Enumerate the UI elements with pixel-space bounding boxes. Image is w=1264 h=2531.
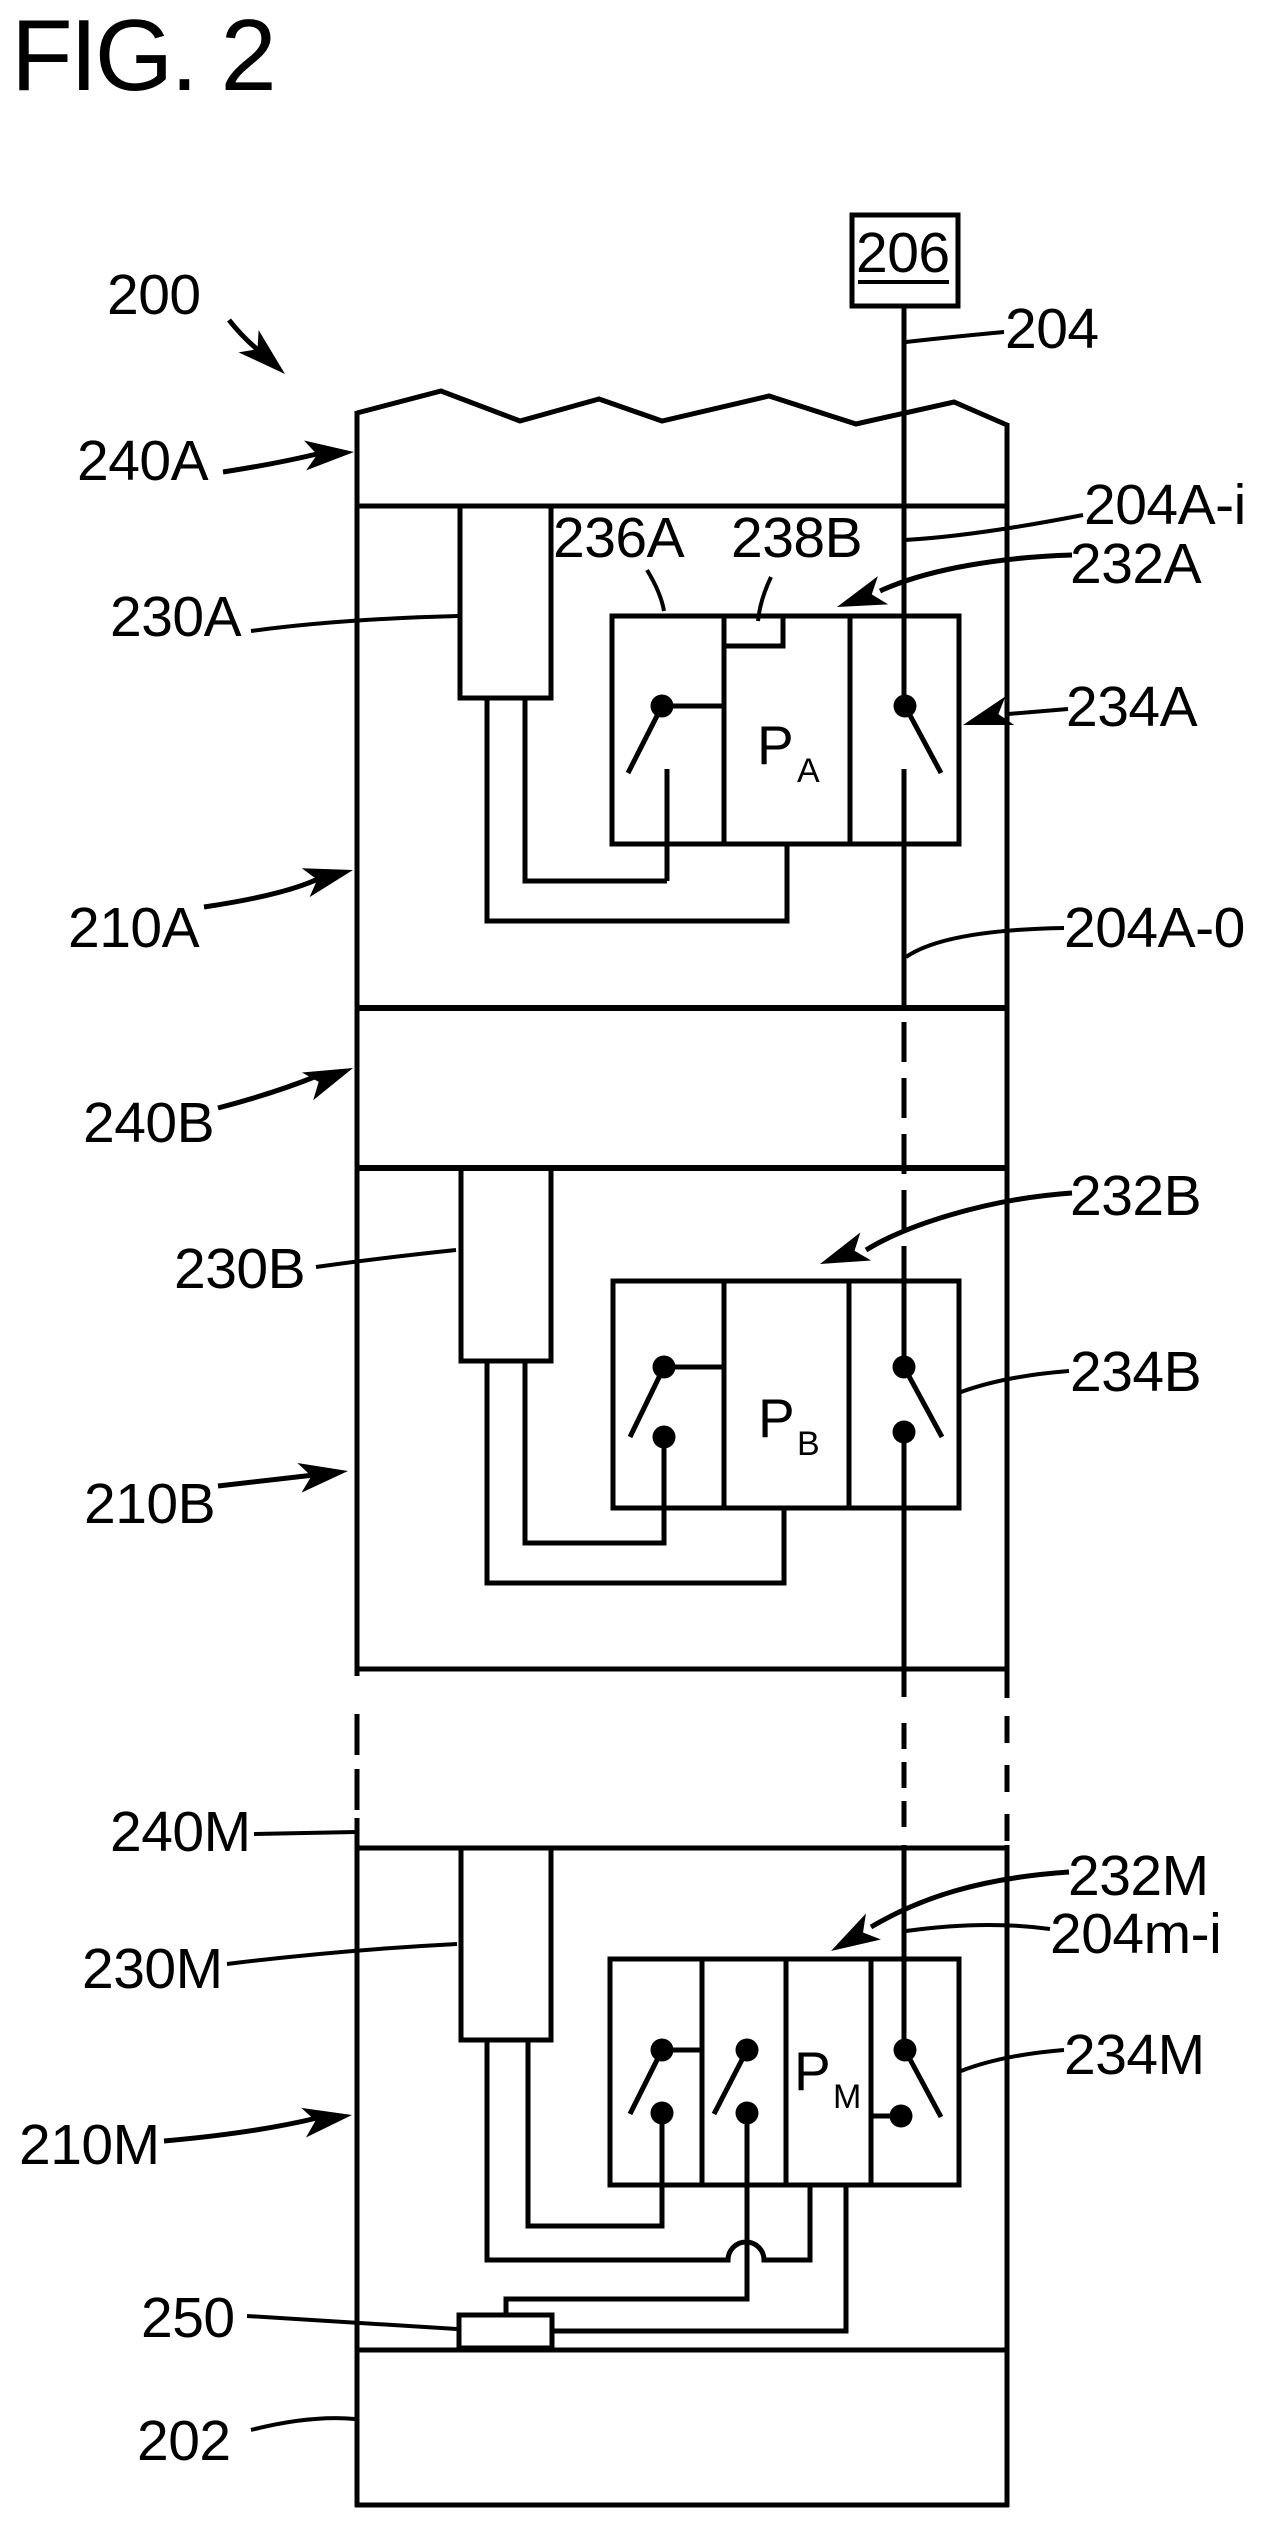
wire 204A-0 stub below switch <box>902 769 907 1010</box>
wire 204 dashed in break <box>902 1723 907 1830</box>
svg-text:P: P <box>758 1387 795 1449</box>
arrow for 210B <box>218 1475 314 1486</box>
layer boundary 210A bottom <box>355 1005 1009 1011</box>
switch M1 bottom dot <box>651 2102 674 2125</box>
svg-text:240B: 240B <box>83 1091 214 1155</box>
wire B1 pedestal to PB cell <box>487 1361 784 1583</box>
svg-text:204A-i: 204A-i <box>1084 473 1246 537</box>
switch 232B-left bottom dot <box>653 1426 676 1449</box>
leader+arrow for 232A <box>880 555 1072 591</box>
leader for 236A <box>647 570 664 611</box>
wire 204 below 232B <box>902 1443 907 1697</box>
layer boundary 240M top of section M <box>355 1846 1009 1851</box>
partition line 232A left <box>722 616 727 844</box>
svg-text:210A: 210A <box>68 896 200 960</box>
pedestal 230A <box>460 506 551 698</box>
switch M2 top dot <box>736 2039 759 2062</box>
switch M1 blade <box>630 2050 662 2114</box>
switch 232B-left contact line <box>664 1365 724 1370</box>
svg-text:M: M <box>833 2078 861 2116</box>
memory cell box 232B <box>613 1281 959 1508</box>
svg-text:B: B <box>797 1425 820 1463</box>
leader for 204A-0 <box>906 928 1064 957</box>
contact pad 250 <box>459 2315 552 2348</box>
svg-text:204: 204 <box>1005 297 1099 361</box>
svg-text:250: 250 <box>141 2286 235 2350</box>
switch 234M blade <box>905 2050 941 2117</box>
switch M2 bottom dot <box>736 2102 759 2125</box>
leader for 230A <box>251 616 458 631</box>
layer boundary 210B bottom <box>355 1667 1009 1672</box>
svg-text:230M: 230M <box>82 1937 223 2001</box>
wire M3 pedestal to PM cell with hop <box>487 2040 810 2260</box>
memory cell box 232M <box>610 1959 959 2185</box>
leader for 238B <box>758 577 771 621</box>
partition line 232M third <box>869 1959 874 2185</box>
svg-text:204A-0: 204A-0 <box>1064 896 1245 960</box>
leader for 250 <box>247 2316 457 2329</box>
leader+arrow for 232M <box>871 1872 1069 1927</box>
leader for 230B <box>316 1250 456 1267</box>
wire 204m vertical to cell M <box>902 1845 907 2039</box>
svg-text:240M: 240M <box>110 1800 251 1864</box>
leader for 204 <box>906 332 1004 342</box>
leader for 234M <box>961 2050 1064 2071</box>
notch 238B sub-box <box>724 616 783 646</box>
switch 234M bottom dot <box>890 2105 913 2128</box>
switch 232B-left blade <box>630 1367 664 1437</box>
wire B2 pedestal to switch 232B-left <box>525 1361 664 1543</box>
switch 236A stub wire <box>665 769 670 881</box>
svg-text:236A: 236A <box>553 506 685 570</box>
switch 236A blade <box>628 706 662 773</box>
arrow for 240A <box>223 454 317 472</box>
svg-text:210B: 210B <box>84 1472 215 1536</box>
layer boundary 240B bottom <box>355 1165 1009 1171</box>
partition line 232B right <box>847 1281 852 1508</box>
svg-text:240A: 240A <box>77 429 209 493</box>
switch M2 blade <box>714 2050 747 2114</box>
svg-text:210M: 210M <box>19 2113 160 2177</box>
svg-text:FIG. 2: FIG. 2 <box>11 0 274 112</box>
svg-text:P: P <box>794 2040 831 2102</box>
arrow for 210M <box>164 2118 317 2141</box>
wire M2 cell2 down to contact pad <box>506 2113 747 2315</box>
wire M1 cell1 to pedestal <box>528 2040 662 2226</box>
switch M1 top dot <box>651 2039 674 2062</box>
switch 234A dot <box>894 695 917 718</box>
memory cell box 232A <box>612 616 959 844</box>
svg-text:200: 200 <box>107 263 201 327</box>
pedestal 230B <box>461 1168 551 1361</box>
switch 234B top dot <box>893 1356 916 1379</box>
switch 234B blade <box>904 1367 942 1437</box>
partition line 232B left <box>722 1281 727 1508</box>
partition line 232M first <box>700 1959 705 2185</box>
right wall solid upper <box>1005 423 1010 1698</box>
switch M1 contact line <box>662 2048 702 2053</box>
partition line 232A right <box>848 616 853 844</box>
leader for 230M <box>227 1944 457 1964</box>
switch 234A blade <box>905 706 941 773</box>
leader+arrow for 234A <box>1008 709 1068 714</box>
svg-text:232B: 232B <box>1070 1164 1201 1228</box>
svg-text:202: 202 <box>137 2409 231 2473</box>
svg-text:234B: 234B <box>1070 1340 1201 1404</box>
wire 204 inside 232B to switch <box>902 1281 907 1356</box>
bottom edge of substrate 202 <box>355 2503 1009 2508</box>
switch 234M contact line <box>871 2114 895 2119</box>
svg-text:232M: 232M <box>1068 1844 1209 1908</box>
svg-text:P: P <box>757 714 794 776</box>
wire 204 dashed through 240B <box>902 1022 907 1281</box>
svg-text:230B: 230B <box>174 1237 305 1301</box>
right wall dashed (break) <box>1005 1716 1010 1845</box>
wire A2 pedestal to switch 236A <box>525 698 667 881</box>
zigzag top edge of structure <box>357 391 1007 425</box>
switch 234M top dot <box>894 2039 917 2062</box>
arrow for 240B <box>218 1076 317 1108</box>
layer boundary 210M bottom / 202 top <box>355 2348 1009 2353</box>
leader+arrow for 232B <box>866 1193 1072 1250</box>
svg-text:230A: 230A <box>110 585 242 649</box>
leader for 234B <box>961 1371 1069 1392</box>
leader for 240M <box>254 1832 356 1834</box>
svg-text:206: 206 <box>856 221 950 285</box>
left wall dashed (break) <box>355 1714 360 1810</box>
svg-text:234M: 234M <box>1064 2023 1205 2087</box>
arrow for 200 <box>229 320 272 361</box>
partition line 232M second <box>784 1959 789 2185</box>
wire A1 pedestal to PA cell <box>487 698 787 921</box>
switch 232B-left top dot <box>653 1356 676 1379</box>
box 206 (bit line driver) <box>852 215 958 306</box>
switch 234B bottom dot <box>893 1421 916 1444</box>
left wall solid upper <box>355 411 360 1676</box>
arrow for 210A <box>204 878 320 907</box>
right wall solid lower <box>1005 1845 1010 2507</box>
switch 236A dot <box>651 695 674 718</box>
svg-text:234A: 234A <box>1066 675 1198 739</box>
wire M4 contact pad 250 to PM cell <box>552 2187 846 2331</box>
svg-text:A: A <box>797 752 820 790</box>
pedestal 230M <box>461 1848 551 2040</box>
svg-text:204m-i: 204m-i <box>1050 1902 1221 1966</box>
underline for 206 <box>858 280 949 284</box>
svg-text:238B: 238B <box>731 506 862 570</box>
leader for 202 <box>251 2418 355 2430</box>
switch 236A contact line <box>662 704 724 709</box>
left wall solid lower <box>355 1818 360 2507</box>
leader for 204A-i <box>905 515 1083 540</box>
leader for 204m-i <box>906 1925 1050 1931</box>
layer boundary 240A bottom <box>355 504 1009 509</box>
svg-text:232A: 232A <box>1070 532 1202 596</box>
wire 204 vertical from 206 box <box>902 306 907 695</box>
